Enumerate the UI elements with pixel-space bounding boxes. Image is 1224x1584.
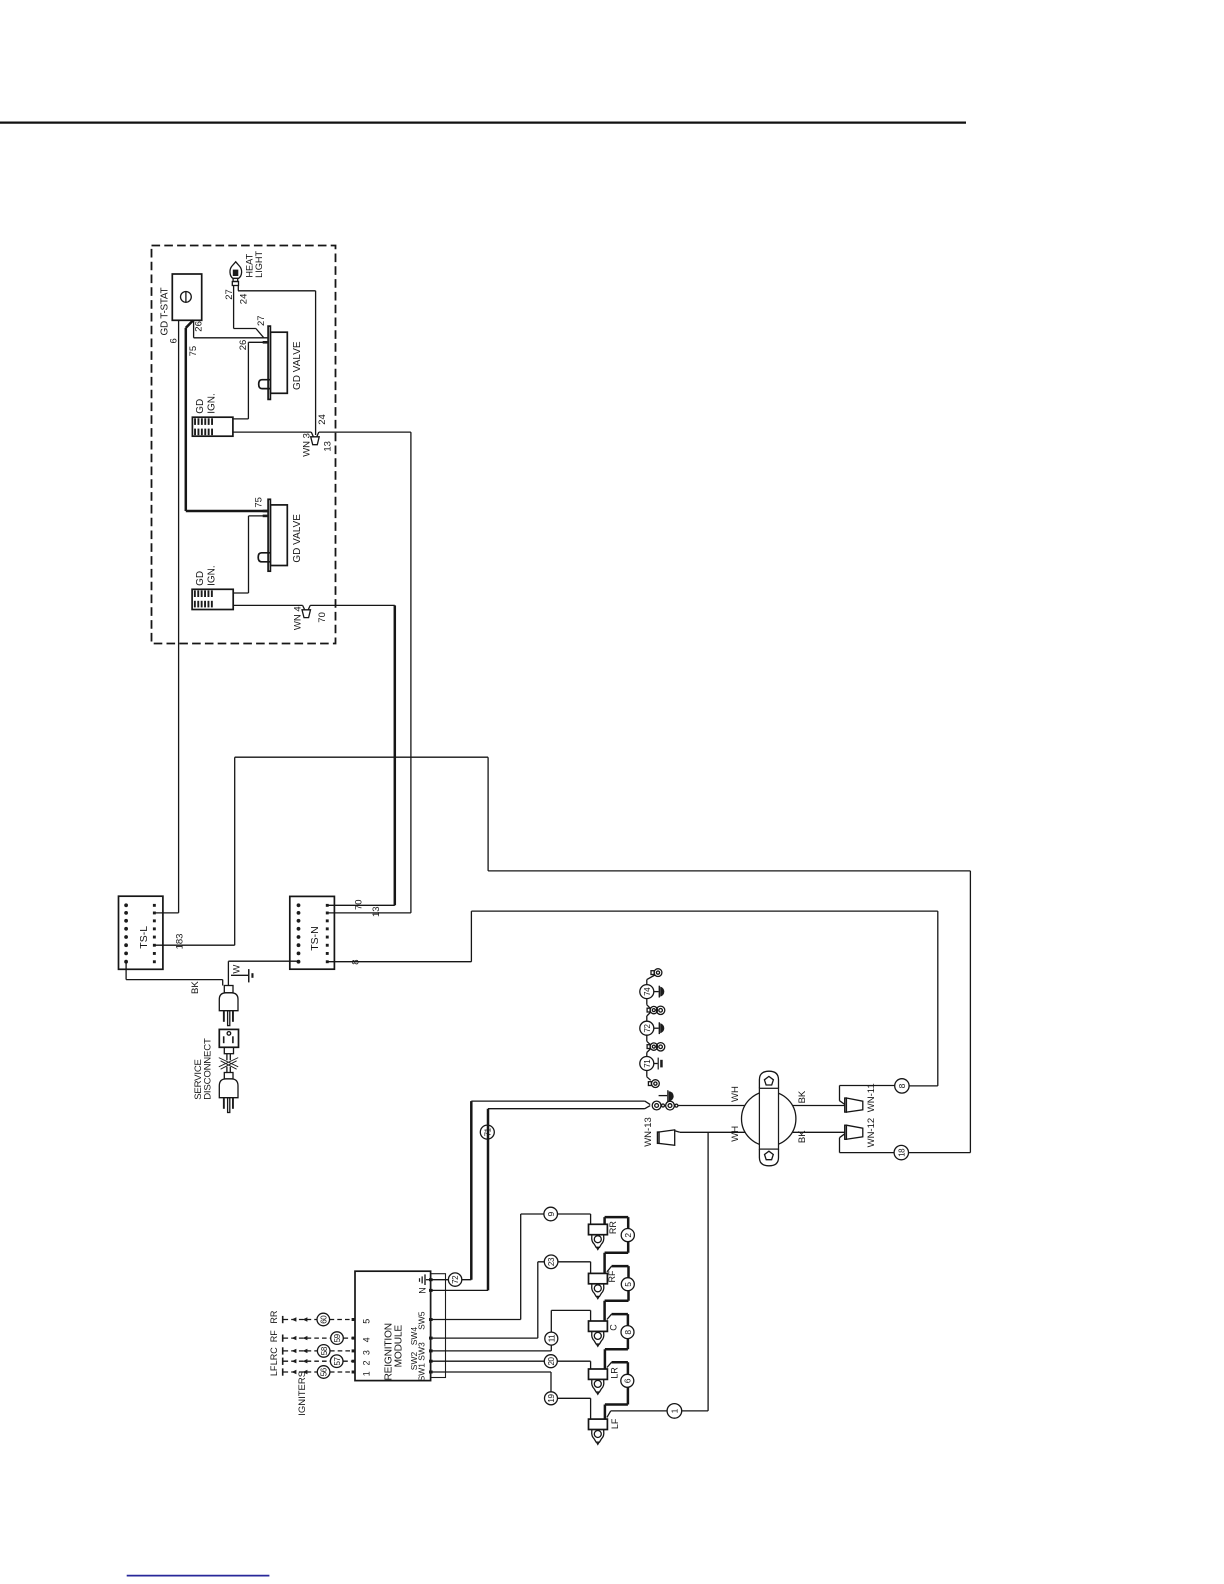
- circle 2: [621, 1229, 634, 1242]
- igniter lead C dashed with electrode: [282, 1347, 352, 1354]
- svg-text:59: 59: [333, 1333, 342, 1342]
- svg-text:72: 72: [451, 1275, 460, 1284]
- svg-text:GD T-STAT: GD T-STAT: [160, 287, 171, 335]
- igniter lead LR dashed with electrode: [282, 1358, 352, 1365]
- svg-text:RR: RR: [608, 1221, 618, 1234]
- svg-text:71: 71: [643, 1059, 652, 1068]
- svg-text:60: 60: [319, 1315, 328, 1324]
- wire chain seg6: [647, 1071, 651, 1081]
- svg-text:11: 11: [547, 1334, 556, 1342]
- service disconnect receptacle: [219, 1029, 238, 1053]
- connector WN-12 spade: [845, 1125, 863, 1139]
- svg-text:1: 1: [362, 1371, 372, 1376]
- wire chain seg4: [647, 1035, 651, 1045]
- chassis ground at junction: [659, 1090, 674, 1102]
- svg-text:LF: LF: [610, 1418, 620, 1429]
- wire chain seg2: [647, 999, 651, 1009]
- svg-text:BK: BK: [190, 981, 201, 994]
- circle 18: [894, 1145, 908, 1159]
- wire 72 module ground to junction riser (thick): [431, 1279, 472, 1281]
- svg-text:6: 6: [623, 1378, 633, 1383]
- burner switch C: [589, 1321, 608, 1346]
- circle 19: [545, 1392, 558, 1405]
- svg-text:58: 58: [320, 1346, 329, 1355]
- svg-text:18: 18: [898, 1148, 907, 1157]
- svg-text:8: 8: [623, 1330, 633, 1335]
- svg-text:1: 1: [670, 1408, 680, 1413]
- ring terminal bottom: [648, 1080, 659, 1088]
- wire SW5 to RR switch via circle 9: [431, 1214, 591, 1320]
- wire SW1 to LF switch via circle 19: [431, 1372, 591, 1419]
- svg-text:DISCONNECT: DISCONNECT: [203, 1038, 214, 1100]
- svg-text:LR: LR: [269, 1353, 279, 1365]
- svg-text:2: 2: [623, 1233, 633, 1238]
- circle 8: [895, 1079, 909, 1093]
- svg-text:3: 3: [362, 1350, 372, 1355]
- svg-text:75: 75: [188, 346, 199, 357]
- svg-text:MODULE: MODULE: [394, 1325, 405, 1368]
- svg-text:26: 26: [238, 340, 249, 351]
- svg-text:IGN.: IGN.: [207, 393, 218, 414]
- gas valve 1 (GD VALVE): [259, 326, 288, 399]
- wire W from TS-N to plug: [228, 961, 298, 985]
- wire circle 18 to riser: [909, 1152, 971, 1154]
- svg-text:8: 8: [897, 1083, 907, 1088]
- service disconnect plug 1: [219, 986, 238, 1026]
- svg-text:HEAT: HEAT: [245, 253, 255, 277]
- circle 57: [330, 1355, 343, 1368]
- connector WN 3 cup: [311, 437, 320, 445]
- svg-text:RF: RF: [607, 1270, 617, 1282]
- svg-text:72: 72: [643, 1023, 652, 1032]
- circle 71 chain: [640, 1057, 654, 1071]
- wire 6 long from t-stat to TS-L: [154, 320, 178, 913]
- wire chain seg1: [647, 975, 655, 985]
- svg-text:LF: LF: [269, 1365, 279, 1376]
- circle 5: [621, 1278, 634, 1291]
- svg-text:19: 19: [547, 1394, 556, 1403]
- heat light lamp: [230, 262, 242, 286]
- svg-text:27: 27: [256, 315, 267, 326]
- svg-text:2: 2: [362, 1360, 372, 1365]
- svg-text:WH: WH: [730, 1086, 741, 1102]
- svg-text:RF: RF: [269, 1330, 279, 1342]
- page header rule: [0, 121, 966, 123]
- circle 74: [640, 985, 654, 999]
- circle 71 riser: [480, 1125, 494, 1139]
- chassis ground at 72: [654, 1022, 664, 1034]
- svg-text:WN-11: WN-11: [866, 1083, 877, 1112]
- terminal strip TS-N: [290, 896, 335, 969]
- ring pair A: [647, 1006, 665, 1014]
- wire BK top transformer to WN-11: [793, 1105, 845, 1107]
- svg-text:57: 57: [333, 1356, 342, 1365]
- chassis ground at 74: [654, 986, 664, 998]
- circle 60: [317, 1313, 330, 1326]
- svg-text:WN-12: WN-12: [866, 1118, 877, 1148]
- wire LR loop to circle 6: [607, 1362, 612, 1367]
- wire WN-13 drop to circle 1: [707, 1132, 709, 1411]
- svg-text:23: 23: [547, 1257, 556, 1266]
- module right pins: [429, 1278, 433, 1373]
- svg-text:N: N: [417, 1287, 427, 1294]
- chassis ground small at 71: [654, 1058, 663, 1070]
- svg-text:IGNITERS: IGNITERS: [297, 1371, 308, 1416]
- svg-text:13: 13: [371, 906, 382, 917]
- transformer core and coil: [742, 1071, 796, 1166]
- wire SW4 to RF switch via circle 23: [431, 1262, 591, 1338]
- module left pins 5,4,3,2,1: [352, 1318, 356, 1374]
- wire BK bottom transformer to WN-12: [793, 1131, 845, 1133]
- svg-text:TS-L: TS-L: [138, 926, 150, 949]
- wire chain seg5: [647, 1049, 651, 1057]
- module ground symbol: [419, 1274, 431, 1285]
- svg-text:IGN.: IGN.: [207, 565, 218, 586]
- svg-text:4: 4: [362, 1337, 372, 1342]
- wire WH top to transformer: [678, 1105, 745, 1107]
- wire valve2 lower terminal to igniter2: [233, 516, 268, 593]
- svg-text:5: 5: [362, 1319, 372, 1324]
- fuse chain ring terminal top: [651, 969, 662, 977]
- wire C loop to circle 8: [607, 1314, 612, 1319]
- svg-text:70: 70: [354, 899, 365, 910]
- igniter 2 (GD IGN.): [192, 589, 233, 609]
- ground at plug W: [231, 969, 254, 982]
- circle 72 module: [448, 1273, 461, 1286]
- wire valve1 lower terminal to igniter1: [233, 342, 268, 419]
- service disconnect cable with cut: [219, 1054, 238, 1073]
- circle 9: [544, 1207, 558, 1221]
- svg-text:TS-N: TS-N: [309, 926, 321, 951]
- circle 23: [544, 1255, 558, 1269]
- connector WN 4 cup: [302, 610, 311, 618]
- wire circle 8 to riser: [909, 1085, 938, 1087]
- wire LF to circle 1: [607, 1411, 708, 1418]
- svg-text:GD: GD: [195, 571, 206, 586]
- igniter lead RR dashed with electrode: [282, 1316, 352, 1323]
- circle 58: [317, 1345, 330, 1358]
- svg-text:26: 26: [194, 321, 205, 332]
- circle 56: [317, 1366, 330, 1379]
- burner switch LF: [589, 1419, 608, 1444]
- svg-text:WN 3: WN 3: [302, 433, 313, 457]
- wire 75 thick from t-stat to valve2: [186, 320, 268, 511]
- wire 71 junction lead lower: [488, 1106, 650, 1109]
- wire 70 from igniter2 through WN 4 to TS-N (thick right section): [233, 605, 395, 609]
- circle 11: [545, 1332, 558, 1345]
- wire 183 from TS-L far path to circle 18: [154, 757, 970, 1152]
- wire RR loop to circle 2: [605, 1217, 629, 1273]
- svg-text:C: C: [269, 1347, 279, 1354]
- wire SW2 to LR switch via circle 20: [431, 1361, 591, 1369]
- igniter lead LF dashed with electrode: [282, 1368, 352, 1375]
- svg-text:WN 4: WN 4: [292, 606, 303, 630]
- svg-text:SW1: SW1: [417, 1363, 427, 1382]
- thermostat GD T-STAT body: [172, 274, 201, 320]
- svg-text:WH: WH: [730, 1126, 741, 1142]
- burner switch LR: [589, 1369, 608, 1394]
- wire 13 from igniter1 through WN 3 to TS-N: [233, 432, 411, 913]
- terminal strip TS-L: [119, 896, 163, 969]
- svg-text:56: 56: [320, 1367, 329, 1376]
- wire 27 heat light left lead to valve1: [234, 286, 264, 338]
- wire 26 from t-stat to valve1: [194, 320, 269, 338]
- svg-text:75: 75: [253, 497, 264, 508]
- svg-text:GD VALVE: GD VALVE: [292, 341, 303, 390]
- svg-text:W: W: [232, 965, 243, 974]
- svg-text:71: 71: [483, 1127, 492, 1136]
- dashed enclosure box (oven section): [152, 246, 336, 644]
- wire 24 from heat light (right stem, across, down): [238, 286, 316, 436]
- service disconnect plug 2: [219, 1073, 238, 1113]
- burner switch RR: [589, 1224, 608, 1249]
- svg-text:GD: GD: [195, 399, 206, 414]
- wire 71 module N to junction riser (thick): [431, 1289, 488, 1291]
- ring pair B: [647, 1043, 665, 1051]
- svg-text:20: 20: [547, 1356, 556, 1365]
- svg-text:13: 13: [322, 441, 333, 452]
- svg-text:24: 24: [317, 414, 328, 425]
- svg-text:24: 24: [238, 294, 249, 305]
- burner switch RF: [589, 1273, 608, 1298]
- igniter 1 (GD IGN.): [192, 417, 233, 436]
- igniter lead RF dashed with electrode: [282, 1335, 352, 1342]
- svg-text:5: 5: [623, 1282, 633, 1287]
- wire chain seg3: [647, 1013, 651, 1022]
- svg-text:C: C: [609, 1324, 619, 1331]
- gas valve 2 (GD VALVE): [258, 499, 287, 571]
- wire 72 junction lead upper: [471, 1101, 650, 1105]
- junction ring pair with screw: [652, 1101, 678, 1110]
- connector WN-11 spade: [845, 1098, 863, 1112]
- svg-text:70: 70: [317, 612, 328, 623]
- wire SW3 to C switch via circle 11: [431, 1310, 591, 1351]
- wire 18 link into WN-12: [840, 1134, 895, 1153]
- svg-text:74: 74: [643, 987, 652, 996]
- svg-text:BK: BK: [797, 1130, 808, 1143]
- svg-text:6: 6: [169, 338, 180, 343]
- circle 1: [667, 1404, 682, 1419]
- svg-text:LR: LR: [610, 1367, 620, 1379]
- wire RF loop to circle 5: [607, 1266, 612, 1272]
- svg-text:LIGHT: LIGHT: [254, 250, 264, 277]
- reignition module box: [355, 1271, 446, 1380]
- svg-text:BK: BK: [797, 1090, 808, 1103]
- svg-text:WN-13: WN-13: [643, 1117, 654, 1147]
- circle 20: [544, 1355, 557, 1368]
- circle 59: [331, 1332, 344, 1345]
- svg-text:9: 9: [546, 1212, 556, 1217]
- svg-text:183: 183: [175, 934, 186, 950]
- circle 72 chain: [640, 1021, 654, 1035]
- wire WH bottom transformer to WN-13: [680, 1131, 745, 1133]
- circle 8 switch C: [621, 1326, 634, 1339]
- circle 6 switch LR: [621, 1374, 634, 1387]
- wire 8 from TS-N to circle 8: [327, 911, 938, 1086]
- svg-text:RR: RR: [269, 1310, 279, 1323]
- connector WN-13 spade: [657, 1130, 680, 1145]
- page footer blue rule: [127, 1575, 270, 1577]
- svg-text:GD VALVE: GD VALVE: [292, 514, 303, 563]
- wire BK from TS-L to service disconnect plug: [126, 962, 223, 986]
- wire 8 link into WN-11: [840, 1086, 895, 1105]
